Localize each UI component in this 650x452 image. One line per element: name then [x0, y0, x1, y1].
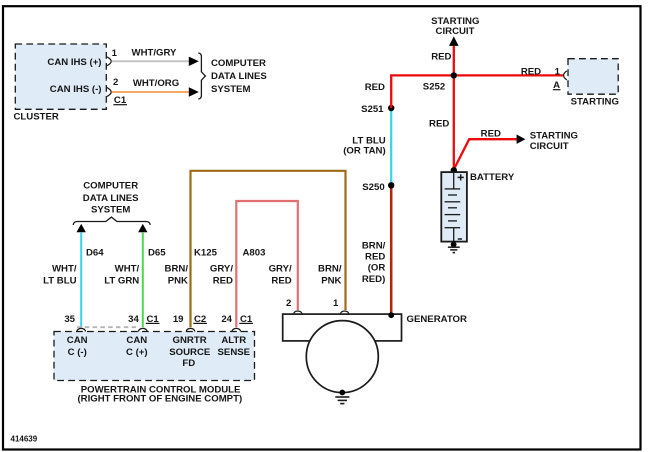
generator ground symbol	[335, 397, 349, 404]
svg-text:RED): RED)	[362, 274, 385, 285]
wire BRN/RED from S250 to generator	[390, 185, 393, 314]
battery minus sign	[458, 238, 462, 240]
wire D64 WHT/LT BLU	[80, 233, 82, 328]
wire K125 BRN/PNK (PCM to generator pin 1)	[191, 171, 346, 327]
battery ground symbol	[448, 247, 460, 252]
svg-text:GENERATOR: GENERATOR	[407, 314, 467, 325]
arrow to computer data lines (bottom)	[189, 87, 199, 96]
svg-text:1: 1	[555, 67, 561, 78]
svg-text:2: 2	[113, 77, 118, 88]
svg-text:A803: A803	[243, 248, 266, 259]
svg-text:CAN IHS (+): CAN IHS (+)	[47, 57, 101, 68]
PCM pin 35 connector	[77, 328, 86, 331]
svg-text:STARTING: STARTING	[530, 131, 578, 142]
svg-text:DATA LINES: DATA LINES	[211, 71, 267, 82]
svg-text:RED: RED	[431, 51, 451, 62]
splice S251	[388, 105, 394, 111]
svg-text:PNK: PNK	[168, 275, 188, 286]
battery cells	[445, 173, 461, 242]
svg-text:COMPUTER: COMPUTER	[83, 181, 138, 192]
svg-text:RED: RED	[365, 82, 385, 93]
svg-text:(RIGHT FRONT OF ENGINE COMPT): (RIGHT FRONT OF ENGINE COMPT)	[77, 393, 242, 404]
label WHT/LT BLU	[43, 263, 77, 286]
svg-text:CAN IHS (-): CAN IHS (-)	[50, 84, 102, 95]
svg-text:BRN/: BRN/	[362, 241, 386, 252]
svg-text:GRY/: GRY/	[269, 263, 292, 274]
svg-text:LT GRN: LT GRN	[104, 275, 139, 286]
label BRN/PNK (generator pin 1)	[318, 263, 342, 286]
brace over arrows	[73, 217, 150, 225]
wire WHT/GRY	[112, 60, 189, 62]
cluster pin 2 connector	[107, 88, 111, 97]
cluster module box	[15, 44, 106, 109]
generator body circle	[306, 321, 378, 393]
svg-text:BRN/: BRN/	[165, 263, 189, 274]
svg-text:GNRTR: GNRTR	[173, 335, 207, 346]
svg-text:35: 35	[64, 314, 75, 325]
svg-text:CAN: CAN	[67, 335, 88, 346]
PCM pin 34 connector	[139, 328, 148, 331]
battery plus sign	[458, 174, 464, 180]
svg-text:GRY/: GRY/	[210, 263, 233, 274]
label GRY/RED (A803)	[210, 263, 233, 286]
generator ground dot	[339, 390, 345, 396]
svg-text:WHT/GRY: WHT/GRY	[132, 48, 178, 59]
PCM pin name texts	[67, 335, 251, 369]
arrow up (D64)	[77, 224, 86, 232]
svg-text:LT BLU: LT BLU	[43, 275, 76, 286]
svg-text:D65: D65	[148, 248, 166, 259]
red wire from corner to S251 and to starting box	[391, 75, 563, 108]
svg-text:RED: RED	[521, 67, 541, 78]
svg-text:414639: 414639	[11, 435, 38, 444]
generator box	[283, 314, 402, 341]
svg-text:BATTERY: BATTERY	[470, 172, 515, 183]
svg-text:CIRCUIT: CIRCUIT	[530, 141, 569, 152]
brace right	[198, 53, 205, 99]
generator pin 1 connector	[340, 311, 348, 314]
PCM connector C2 label	[193, 314, 207, 325]
svg-text:DATA LINES: DATA LINES	[83, 193, 139, 204]
svg-text:RED: RED	[271, 275, 291, 286]
svg-text:19: 19	[173, 314, 184, 325]
connector C1 label	[113, 95, 127, 106]
PCM pin 19 connector	[186, 328, 195, 331]
svg-text:D64: D64	[86, 248, 104, 259]
svg-text:1: 1	[333, 298, 339, 309]
svg-text:WHT/: WHT/	[52, 263, 77, 274]
PCM connector C1 label (right)	[239, 314, 253, 325]
arrow up to starting circuit	[449, 36, 459, 46]
starting box pin connector	[564, 71, 567, 80]
svg-text:COMPUTER: COMPUTER	[211, 58, 266, 69]
wire LT BLU (OR TAN) S251 to S250	[390, 108, 392, 185]
svg-text:RED: RED	[365, 252, 385, 263]
svg-text:(OR: (OR	[368, 263, 386, 274]
svg-text:WHT/: WHT/	[115, 263, 140, 274]
label WHT/LT GRN	[104, 263, 139, 286]
svg-text:SYSTEM: SYSTEM	[91, 205, 130, 216]
svg-text:24: 24	[221, 314, 232, 325]
arrow right to starting circuit	[517, 135, 526, 144]
wire A803 GRY/RED (PCM to generator pin 2)	[236, 201, 297, 327]
svg-text:SENSE: SENSE	[218, 347, 251, 358]
svg-text:WHT/ORG: WHT/ORG	[133, 78, 179, 89]
svg-text:34: 34	[128, 314, 139, 325]
svg-text:S251: S251	[361, 104, 384, 115]
svg-text:CLUSTER: CLUSTER	[14, 112, 59, 123]
svg-text:C (+): C (+)	[126, 347, 148, 358]
arrow to computer data lines (top)	[189, 57, 199, 66]
svg-text:FD: FD	[182, 358, 195, 369]
twisted pair indicator	[77, 326, 138, 328]
svg-text:1: 1	[112, 48, 118, 59]
svg-text:RED: RED	[213, 275, 233, 286]
PCM connector C1 label	[146, 314, 160, 325]
label GRY/RED (generator pin 2)	[269, 263, 292, 286]
splice S250	[388, 182, 394, 188]
generator pin 2 connector	[294, 311, 302, 314]
svg-text:PNK: PNK	[321, 275, 341, 286]
starting box pin A label	[553, 80, 561, 91]
svg-text:BRN/: BRN/	[318, 263, 342, 274]
red wire S252 down to battery	[453, 75, 455, 170]
svg-text:C (-): C (-)	[68, 347, 87, 358]
cluster pin 1 connector	[107, 57, 111, 66]
starting circuit text (top)	[431, 16, 479, 37]
splice S252	[451, 72, 457, 78]
starting circuit text (mid right)	[530, 131, 578, 152]
svg-text:(OR TAN): (OR TAN)	[343, 146, 385, 157]
svg-text:RED: RED	[481, 129, 501, 140]
svg-text:SYSTEM: SYSTEM	[211, 84, 250, 95]
svg-text:RED: RED	[429, 118, 449, 129]
label LT BLU (OR TAN)	[343, 136, 386, 157]
svg-text:CIRCUIT: CIRCUIT	[436, 26, 475, 37]
red wire up from S252 to arrow	[453, 46, 455, 76]
svg-text:2: 2	[286, 298, 291, 309]
label BRN/PNK (K125)	[165, 263, 189, 286]
svg-text:SOURCE: SOURCE	[169, 347, 211, 358]
battery junction dot (top)	[451, 167, 457, 173]
battery ground dot	[451, 242, 457, 248]
junction dot at generator	[388, 312, 394, 318]
label BRN/RED (OR RED)	[362, 241, 386, 285]
starting module box	[568, 59, 618, 94]
PCM module box	[54, 332, 255, 381]
svg-text:S250: S250	[362, 182, 384, 193]
computer data lines system text (mid-left)	[83, 181, 139, 216]
svg-text:S252: S252	[423, 81, 445, 92]
computer data lines system text (top)	[211, 58, 267, 95]
svg-text:STARTING: STARTING	[571, 96, 619, 107]
PCM pin 24 connector	[232, 328, 241, 331]
svg-text:CAN: CAN	[126, 335, 147, 346]
PCM caption	[77, 384, 242, 404]
wire WHT/ORG	[112, 91, 189, 93]
wire D65 WHT/LT GRN	[142, 233, 144, 328]
red wire branch to starting circuit arrow	[454, 139, 517, 169]
battery box	[441, 172, 467, 242]
svg-text:K125: K125	[194, 248, 218, 259]
arrow up (D65)	[138, 224, 147, 232]
svg-text:ALTR: ALTR	[221, 335, 246, 346]
